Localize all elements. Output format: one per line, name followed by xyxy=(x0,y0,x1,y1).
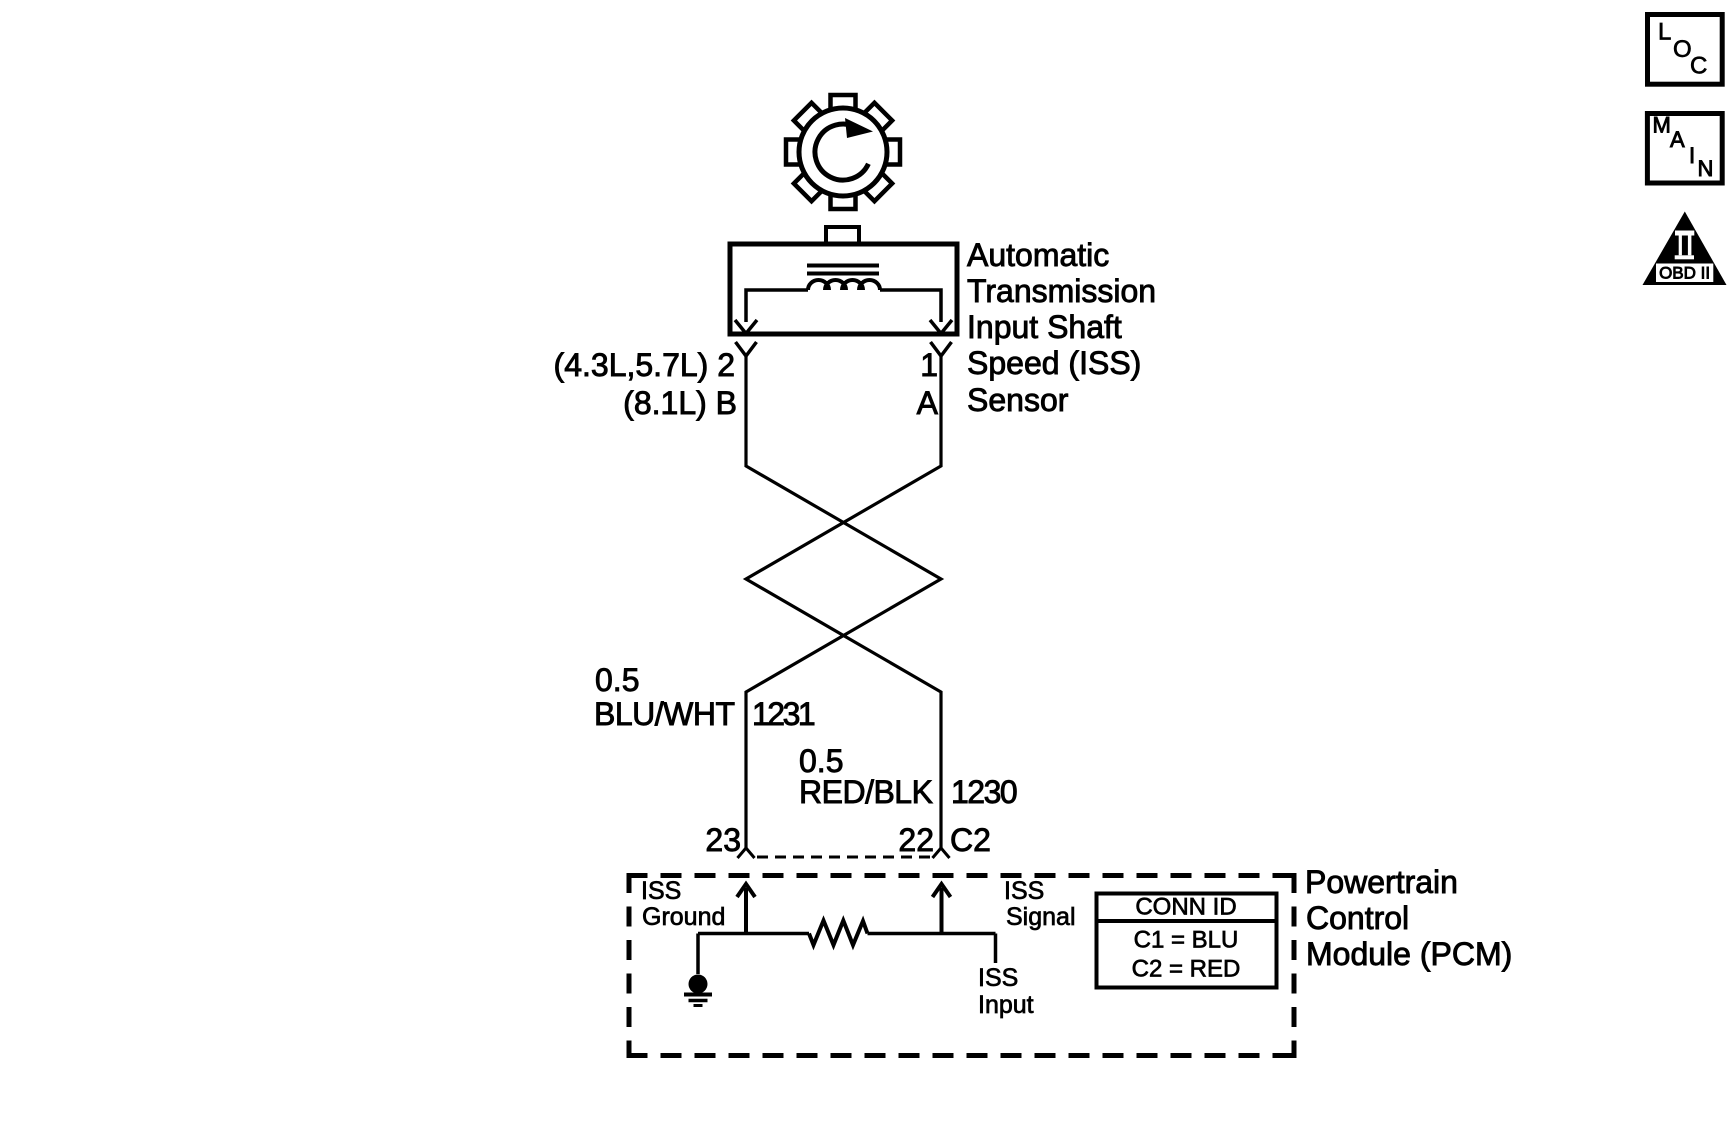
svg-text:Sensor: Sensor xyxy=(967,382,1069,418)
MAIN box xyxy=(1647,114,1722,184)
svg-text:1: 1 xyxy=(920,347,938,383)
terminal 22 caret xyxy=(933,848,950,858)
ISS input stub wire xyxy=(994,934,998,964)
internal wire right segment xyxy=(868,932,996,936)
PCM dashed box xyxy=(627,873,1297,878)
resistor R xyxy=(809,921,868,946)
connector C2 dashed line xyxy=(757,856,931,859)
svg-text:Automatic: Automatic xyxy=(967,237,1109,273)
svg-text:0.5: 0.5 xyxy=(595,662,639,698)
svg-text:ISS: ISS xyxy=(978,964,1018,992)
svg-text:Control: Control xyxy=(1306,900,1409,936)
ground symbol xyxy=(689,975,708,994)
svg-text:N: N xyxy=(1698,156,1714,181)
OBD II pillar symbol xyxy=(1675,231,1694,236)
svg-text:Input: Input xyxy=(978,991,1034,1019)
sensor box U1 (ISS sensor) xyxy=(730,244,957,334)
sensor connector terminal left (Y) xyxy=(736,342,757,356)
ground drop wire xyxy=(696,934,700,975)
svg-text:Speed (ISS): Speed (ISS) xyxy=(967,345,1141,381)
svg-text:Ground: Ground xyxy=(642,903,725,931)
svg-text:RED/BLK: RED/BLK xyxy=(799,774,933,810)
sensor mounting tab xyxy=(826,227,859,244)
svg-text:22: 22 xyxy=(898,822,934,858)
OBD II triangle xyxy=(1643,212,1727,286)
svg-text:A: A xyxy=(917,385,939,421)
gear (rotating shaft) icon xyxy=(786,95,900,209)
svg-text:CONN ID: CONN ID xyxy=(1135,894,1236,921)
wire 1231 BLU/WHT (twisted pair) xyxy=(746,356,941,848)
terminal 23 caret xyxy=(738,848,755,858)
svg-text:(4.3L,5.7L) 2: (4.3L,5.7L) 2 xyxy=(554,347,735,383)
ISS ground arrow (up) xyxy=(744,888,748,933)
svg-text:I: I xyxy=(1689,143,1695,168)
svg-text:Input Shaft: Input Shaft xyxy=(967,309,1122,345)
svg-text:(8.1L) B: (8.1L) B xyxy=(623,385,737,421)
svg-text:L: L xyxy=(1658,19,1671,46)
svg-text:A: A xyxy=(1670,127,1685,152)
svg-text:1231: 1231 xyxy=(752,696,815,732)
svg-text:23: 23 xyxy=(705,822,741,858)
wire 1230 RED/BLK (twisted pair) xyxy=(746,356,941,848)
svg-text:Transmission: Transmission xyxy=(967,273,1156,309)
svg-text:Powertrain: Powertrain xyxy=(1305,864,1458,900)
svg-text:Module (PCM): Module (PCM) xyxy=(1306,936,1512,972)
ISS signal arrow (up) xyxy=(940,888,944,933)
core bars xyxy=(807,266,879,274)
svg-text:O: O xyxy=(1673,36,1692,63)
coil lead left with arrow to pin 2 xyxy=(746,290,808,322)
svg-text:1230: 1230 xyxy=(951,774,1017,810)
svg-text:C2: C2 xyxy=(950,822,991,858)
CONN ID table xyxy=(1097,894,1277,988)
LOC box xyxy=(1648,15,1723,85)
OBD II label box xyxy=(1656,264,1713,283)
svg-text:Signal: Signal xyxy=(1006,903,1076,931)
internal wire left segment xyxy=(698,932,809,936)
coil lead right with arrow to pin 1 xyxy=(880,290,941,322)
rotation arrow inside gear xyxy=(815,124,868,180)
sensor connector terminal right (Y) xyxy=(931,342,952,356)
svg-text:C: C xyxy=(1690,53,1707,80)
svg-text:BLU/WHT: BLU/WHT xyxy=(594,696,735,732)
svg-text:ISS: ISS xyxy=(1004,877,1044,905)
svg-text:C1 = BLU: C1 = BLU xyxy=(1134,927,1239,954)
inductor coil xyxy=(808,280,880,290)
svg-text:M: M xyxy=(1653,112,1671,137)
svg-text:OBD II: OBD II xyxy=(1659,264,1710,283)
svg-text:C2 = RED: C2 = RED xyxy=(1132,956,1241,983)
svg-text:ISS: ISS xyxy=(641,877,681,905)
